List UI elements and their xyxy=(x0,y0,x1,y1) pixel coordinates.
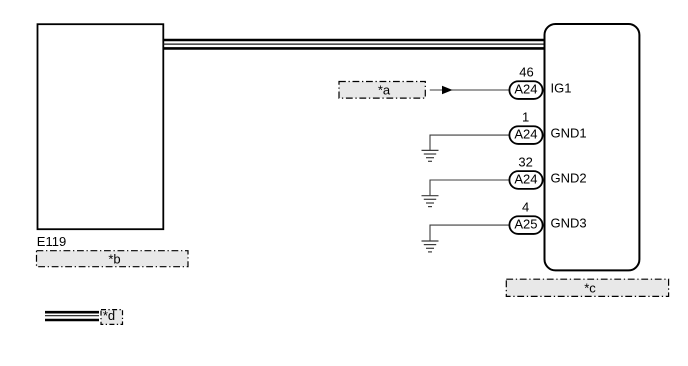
svg-text:A24: A24 xyxy=(514,127,537,142)
svg-text:*c: *c xyxy=(584,280,596,295)
svg-text:1: 1 xyxy=(522,109,529,124)
svg-text:A25: A25 xyxy=(514,217,537,232)
ground G1 xyxy=(422,150,439,161)
svg-text:A24: A24 xyxy=(514,82,537,97)
legend box *a xyxy=(339,82,425,99)
svg-text:*d: *d xyxy=(103,308,115,323)
wire GND3 xyxy=(430,225,509,241)
legend box *d xyxy=(101,308,123,324)
pin terminal A25 (GND3) xyxy=(509,216,542,234)
svg-text:GND2: GND2 xyxy=(551,170,587,185)
svg-text:GND1: GND1 xyxy=(551,125,587,140)
svg-text:IG1: IG1 xyxy=(551,80,572,95)
svg-text:4: 4 xyxy=(522,199,529,214)
pin terminal A24 (GND1) xyxy=(509,126,542,144)
wire W1 shielded (outer top) xyxy=(163,39,544,42)
pin terminal A24 (GND2) xyxy=(509,171,542,189)
svg-text:46: 46 xyxy=(519,64,533,79)
wire W1 shielded (outer bottom) xyxy=(163,47,544,50)
wire to IG1 xyxy=(430,89,509,91)
wire GND1 xyxy=(430,135,509,150)
ground G3 xyxy=(422,241,439,252)
legend box *b xyxy=(37,251,189,267)
legend box *c xyxy=(506,279,668,296)
pin terminal A24 (IG1) xyxy=(509,81,542,99)
legend shielded sample (core) xyxy=(45,315,99,317)
ground G2 xyxy=(422,196,439,207)
arrowhead xyxy=(442,86,453,95)
svg-text:*b: *b xyxy=(108,251,120,266)
legend shielded sample (outer bottom) xyxy=(45,319,99,322)
wire GND2 xyxy=(430,180,509,196)
wire W1 core (middle) xyxy=(163,43,544,45)
svg-text:32: 32 xyxy=(518,154,532,169)
svg-text:A24: A24 xyxy=(514,172,537,187)
svg-text:GND3: GND3 xyxy=(551,215,587,230)
svg-text:*a: *a xyxy=(378,82,391,97)
ECU connector body xyxy=(545,24,640,270)
connector block E119 xyxy=(38,24,164,229)
svg-text:E119: E119 xyxy=(37,234,66,249)
legend shielded sample (outer top) xyxy=(45,311,99,314)
